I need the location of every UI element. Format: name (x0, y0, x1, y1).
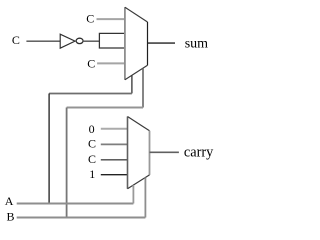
wire C to mux U3 input 2 (101, 159, 128, 161)
wire select S1 of U2: stub from bottom slant (142, 68, 144, 107)
svg-text:0: 0 (89, 122, 95, 136)
wire select S0 of U2: horizontal run (49, 93, 132, 95)
wire carry output (150, 151, 179, 153)
wire A horizontal (17, 203, 134, 205)
wire sum output (148, 42, 176, 44)
wire A up to mux U3 select S0 (132, 185, 134, 203)
wire C to mux U2 input 0 (97, 18, 125, 20)
inverter U1 triangle (60, 34, 75, 48)
svg-text:1: 1 (89, 167, 95, 181)
svg-text:C: C (86, 12, 94, 26)
mux U2 bottom slant edge (125, 65, 148, 80)
wire C to mux U3 input 1 (101, 143, 128, 145)
svg-text:C: C (88, 137, 96, 151)
wire 0 to mux U3 input 0 (101, 128, 128, 130)
mux U2 (sum) left edge (124, 7, 126, 80)
wire B up to mux U3 select S1 (144, 178, 146, 218)
wire select S0 of U2: stub from bottom slant (131, 75, 133, 93)
mux U3 (carry) left edge (127, 117, 129, 189)
svg-text:C: C (12, 33, 20, 47)
wire select S1 of U2: horizontal run (67, 107, 143, 109)
wire C to inverter input (26, 40, 60, 42)
wire B horizontal (17, 217, 146, 219)
wire 1 to mux U3 input 3 (101, 174, 128, 176)
mux U3 top slant edge (128, 117, 150, 131)
svg-text:A: A (5, 194, 14, 208)
wire C to mux U2 input 3 (97, 62, 125, 64)
svg-text:sum: sum (185, 37, 208, 52)
mux U2 top slant edge (125, 7, 148, 22)
svg-text:carry: carry (184, 145, 214, 161)
svg-text:B: B (7, 210, 15, 224)
svg-text:C: C (87, 57, 95, 71)
mux U3 bottom slant edge (128, 175, 150, 189)
wire select S0 of U2: vertical drop to node A (48, 94, 50, 204)
mux U3 right edge (149, 131, 151, 175)
wire fork of inverted C to mux U2 inputs 1 and 2 (99, 33, 125, 48)
svg-text:C: C (88, 152, 96, 166)
wire select S1 of U2: vertical drop to node B (66, 108, 68, 218)
mux U2 right edge (147, 22, 149, 65)
wire inverter output to fork (83, 40, 99, 42)
inverter U1 bubble (76, 38, 83, 43)
